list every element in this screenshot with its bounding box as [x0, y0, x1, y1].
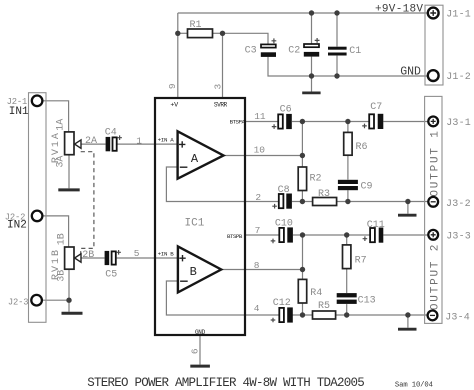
- svg-text:GND: GND: [195, 329, 206, 336]
- wire R2 bottom to pin 2 line: [301, 191, 303, 202]
- svg-text:GND: GND: [400, 65, 421, 78]
- junction pin 10 node: [300, 153, 305, 158]
- svg-text:1: 1: [136, 136, 142, 147]
- svg-text:BTSPA: BTSPA: [230, 119, 246, 126]
- wire C3 bottom to GND rail and rail to J1-2: [268, 57, 428, 76]
- wire op-amp B output pin 8: [221, 269, 302, 271]
- wire +V top rail to J1-1: [178, 12, 428, 14]
- capacitor C10 (electrolytic): [271, 218, 293, 243]
- wire op-amp A output pin 10: [224, 155, 303, 157]
- wire pin 6 IC ground stem: [199, 335, 201, 365]
- capacitor C11 (electrolytic): [363, 220, 385, 243]
- wire RV1B bottom to J2-3 junction: [68, 269, 70, 300]
- svg-text:7: 7: [255, 225, 261, 236]
- wire vertical R6 top lead: [347, 122, 349, 133]
- capacitor C5 (electrolytic): [105, 250, 121, 281]
- svg-text:C3: C3: [245, 45, 257, 56]
- capacitor C7 (electrolytic): [362, 102, 383, 129]
- junction C12 R4 R5 node: [300, 312, 305, 317]
- ground under C2: [302, 92, 320, 95]
- wire ground stem near J3-4: [407, 315, 409, 328]
- svg-text:J2-3: J2-3: [8, 297, 29, 307]
- junction R1 right / pin 3: [220, 31, 225, 36]
- wire C12 to R5: [292, 314, 313, 316]
- resistor R3: [313, 189, 337, 206]
- connector block J3: [425, 96, 442, 323]
- wire J2-2 to RV1B top: [43, 216, 69, 247]
- svg-text:C7: C7: [370, 102, 382, 113]
- svg-text:R3: R3: [318, 189, 330, 200]
- svg-text:R1: R1: [190, 20, 202, 31]
- svg-text:2: 2: [255, 192, 261, 203]
- junction R5 C13 node: [344, 312, 349, 317]
- wire C7 to J3-1: [383, 121, 428, 123]
- wire R6 bottom to C9: [347, 155, 349, 179]
- connector J1-2: [428, 70, 471, 83]
- junction C1 gnd rail: [334, 73, 339, 78]
- capacitor C12 (electrolytic): [271, 298, 293, 323]
- junction C1 top rail: [334, 10, 339, 15]
- svg-text:+V: +V: [170, 102, 179, 110]
- svg-text:OUTPUT 1: OUTPUT 1: [430, 129, 442, 196]
- svg-text:R4: R4: [310, 288, 322, 299]
- svg-text:3: 3: [212, 83, 223, 89]
- svg-text:+IN A: +IN A: [158, 137, 175, 144]
- svg-text:C13: C13: [358, 295, 376, 306]
- svg-text:C4: C4: [105, 127, 117, 138]
- svg-text:6: 6: [190, 348, 201, 354]
- svg-text:1A: 1A: [56, 119, 67, 131]
- wire pin 1 from C4 to op-amp A input: [117, 143, 177, 145]
- wire pin 9 vertical (+V into IC): [177, 13, 179, 98]
- svg-text:R7: R7: [355, 256, 367, 267]
- connector J3-1: [428, 117, 471, 130]
- svg-text:1B: 1B: [57, 233, 68, 245]
- potentiometer RV1B: [51, 233, 94, 282]
- svg-text:5: 5: [134, 248, 140, 259]
- junction R3 C9 node: [345, 199, 350, 204]
- svg-text:C10: C10: [275, 218, 293, 229]
- capacitor C13: [337, 293, 376, 306]
- svg-text:+IN B: +IN B: [158, 250, 175, 257]
- wire ground stem near J3-2: [407, 202, 409, 214]
- svg-text:J3-4: J3-4: [445, 313, 470, 324]
- capacitor C6 (electrolytic): [272, 104, 292, 129]
- wire op-amp A feedback (pin 2) to C8: [166, 167, 278, 202]
- svg-text:3A: 3A: [56, 156, 67, 168]
- junction C8 R2 R3 node: [300, 199, 305, 204]
- svg-text:C1: C1: [349, 46, 361, 57]
- svg-text:SVRR: SVRR: [214, 102, 228, 109]
- connector block J2: [29, 93, 47, 323]
- ground near J3-4: [398, 328, 417, 331]
- wire vertical C10 junction to R4: [302, 235, 304, 279]
- resistor R2: [298, 167, 321, 191]
- svg-text:8: 8: [254, 260, 260, 271]
- op-amp U1A triangle: [178, 131, 224, 178]
- connector J2-2: [5, 211, 43, 223]
- svg-text:11: 11: [254, 111, 266, 122]
- wire ground stem under C2: [311, 76, 313, 92]
- svg-text:C5: C5: [105, 270, 117, 281]
- junction pin 8 node: [300, 267, 305, 272]
- junction J2-3 RV1B gnd node: [66, 298, 71, 303]
- wire pin 7 IC to C10: [245, 234, 279, 236]
- svg-text:10: 10: [254, 144, 266, 155]
- wire pin 11 IC to C6: [245, 121, 278, 123]
- svg-text:A: A: [191, 152, 199, 166]
- svg-text:J3-1: J3-1: [446, 118, 471, 129]
- wire R1 right stub: [213, 32, 223, 34]
- wire R7 bottom to C13: [346, 269, 348, 293]
- svg-text:R6: R6: [356, 142, 368, 153]
- svg-text:C6: C6: [280, 104, 292, 115]
- svg-text:IN1: IN1: [9, 106, 29, 118]
- junction R7 top node: [344, 232, 349, 237]
- wire RV1A wiper to C4: [81, 143, 106, 145]
- junction gnd tap J3-4: [405, 312, 410, 317]
- connector J3-4: [428, 311, 470, 324]
- wire R7 top lead: [346, 235, 348, 245]
- connector J2-3: [8, 295, 42, 307]
- svg-text:IC1: IC1: [185, 218, 205, 230]
- connector J1-1: [428, 8, 471, 21]
- svg-text:J1-1: J1-1: [446, 9, 471, 20]
- wire C6 to C7: [292, 121, 369, 123]
- svg-text:C8: C8: [278, 185, 290, 196]
- connector J2-1: [7, 96, 43, 108]
- wire J2-1 to RV1A top: [43, 101, 69, 132]
- wire J2-3 to junction: [42, 299, 69, 301]
- junction C6 out node: [300, 119, 305, 124]
- svg-text:Sam 10/04: Sam 10/04: [395, 382, 433, 390]
- connector J3-2: [428, 197, 471, 210]
- wire R3 to J3-2: [337, 201, 429, 203]
- ground under RV1A: [58, 188, 79, 191]
- svg-text:J3-2: J3-2: [446, 199, 471, 210]
- capacitor C4 (electrolytic): [105, 127, 122, 151]
- svg-text:IN2: IN2: [7, 220, 27, 232]
- svg-text:OUTPUT 2: OUTPUT 2: [430, 243, 442, 310]
- wire R5 to J3-4: [336, 314, 428, 316]
- resistor R7: [343, 245, 367, 269]
- wire C1 bottom lead: [336, 56, 338, 76]
- wire pin 5 from C5 to op-amp B input: [117, 257, 178, 259]
- svg-text:+9V-18V: +9V-18V: [375, 4, 423, 16]
- svg-text:C2: C2: [288, 45, 300, 56]
- svg-text:2A: 2A: [85, 136, 97, 147]
- resistor R6: [344, 132, 368, 155]
- wire C1 top lead: [336, 13, 338, 47]
- svg-text:C12: C12: [273, 298, 291, 309]
- svg-text:C9: C9: [361, 181, 373, 192]
- wire C9 bottom to pin 2 line: [347, 190, 349, 201]
- svg-text:9: 9: [167, 83, 178, 89]
- capacitor C9: [338, 180, 373, 193]
- wire C11 to J3-3: [383, 234, 428, 236]
- capacitor C8 (electrolytic): [272, 185, 292, 209]
- resistor R1: [188, 20, 213, 37]
- connector J3-3: [428, 230, 471, 243]
- capacitor C1: [328, 46, 361, 57]
- connector block J1: [425, 5, 443, 85]
- op-amp U1B triangle: [178, 246, 221, 292]
- svg-text:R2: R2: [310, 174, 322, 185]
- junction C2 gnd rail: [309, 73, 314, 78]
- svg-text:4: 4: [254, 303, 260, 314]
- svg-text:J1-2: J1-2: [446, 72, 471, 83]
- wire C10 to C11: [293, 234, 370, 236]
- wire vertical C6 junction to R2: [301, 122, 303, 168]
- svg-text:B: B: [190, 265, 197, 279]
- wire pin 3 vertical (SVRR into IC): [222, 33, 224, 98]
- junction C10 out node: [300, 232, 305, 237]
- capacitor C2 (electrolytic): [288, 38, 319, 57]
- svg-text:J3-3: J3-3: [446, 232, 471, 243]
- ground near J3-2: [398, 214, 417, 217]
- resistor R4: [298, 279, 322, 303]
- potentiometer RV1A: [51, 119, 97, 168]
- svg-text:C11: C11: [367, 220, 385, 231]
- dashed gang link RV1A-RV1B: [81, 152, 94, 254]
- wire op-amp B feedback (pin 4) to C12: [166, 281, 278, 315]
- junction R6 top node: [345, 119, 350, 124]
- svg-text:2B: 2B: [82, 250, 94, 261]
- IC U1 body (IC1 TDA2005): [155, 98, 245, 335]
- wire C2 bottom lead: [311, 57, 313, 76]
- wire R4 bottom to pin 4 line: [302, 303, 304, 315]
- resistor R5: [313, 301, 336, 319]
- svg-text:3B: 3B: [57, 270, 68, 282]
- svg-text:R5: R5: [318, 301, 330, 312]
- junction C2 top rail: [309, 10, 314, 15]
- wire C8 to R3: [292, 201, 313, 203]
- wire C2 top lead: [311, 13, 313, 44]
- ground under J2-3 node: [62, 312, 83, 315]
- capacitor C3 (electrolytic): [245, 38, 277, 56]
- wire junction to ground under J2-3: [68, 300, 70, 312]
- wire C13 bottom to pin 4 line: [346, 304, 348, 315]
- junction R1 left / pin 9: [175, 31, 180, 36]
- wire RV1B wiper to C5: [81, 257, 105, 259]
- wire RV1A bottom to ground: [68, 155, 70, 189]
- svg-text:STEREO POWER AMPLIFIER 4W-8W W: STEREO POWER AMPLIFIER 4W-8W WITH TDA200…: [87, 376, 364, 390]
- svg-text:BTSPB: BTSPB: [227, 233, 243, 240]
- junction gnd tap J3-2: [405, 199, 410, 204]
- wire R1 junction to C3 top: [223, 33, 269, 44]
- wire R1 left stub: [178, 32, 188, 34]
- ground under IC pin 6: [190, 365, 210, 368]
